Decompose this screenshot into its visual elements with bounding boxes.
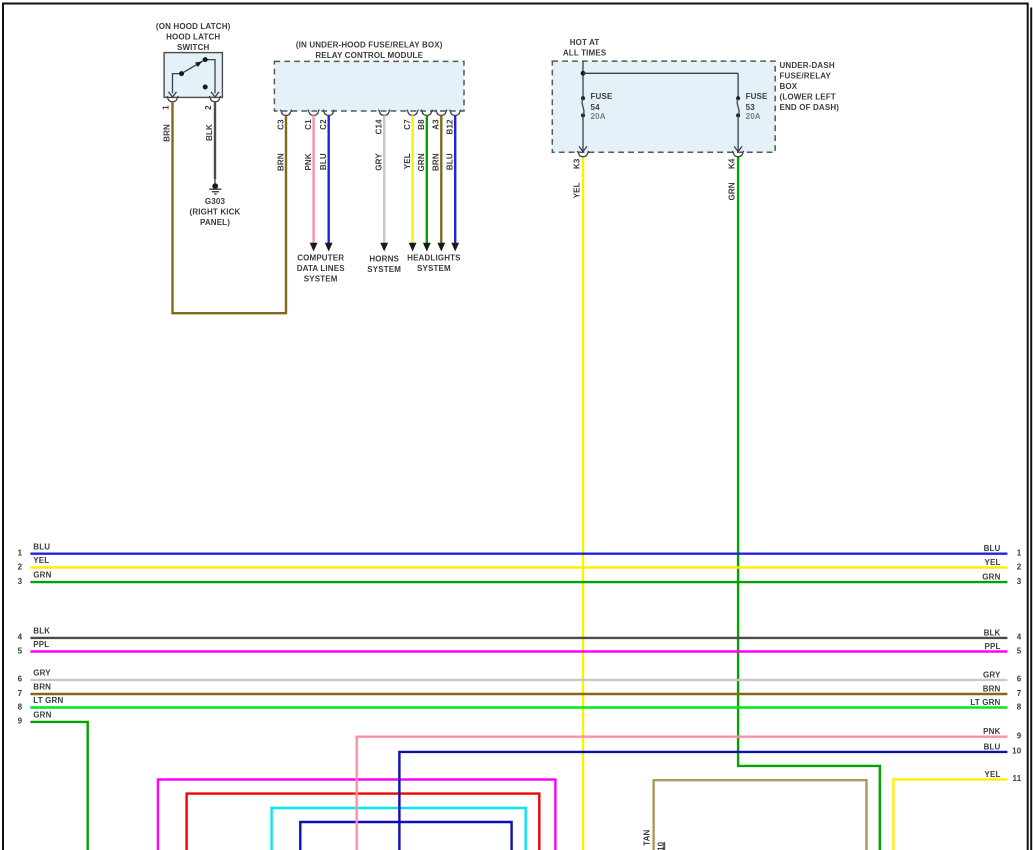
svg-text:BLU: BLU [984,742,1001,751]
svg-text:1: 1 [18,549,23,558]
svg-text:BLK: BLK [984,628,1001,637]
svg-text:YEL: YEL [403,153,412,169]
svg-text:5: 5 [1017,646,1022,655]
svg-text:GRY: GRY [33,669,51,678]
svg-text:YEL: YEL [573,182,582,198]
svg-text:K4: K4 [728,158,737,169]
svg-text:PPL: PPL [33,640,49,649]
svg-text:3: 3 [1017,577,1022,586]
svg-text:1: 1 [161,105,170,110]
svg-text:BOX: BOX [780,82,798,91]
svg-text:BLU: BLU [446,153,455,170]
svg-text:20A: 20A [591,112,606,121]
svg-text:10: 10 [1012,747,1022,756]
svg-text:SYSTEM: SYSTEM [367,265,401,274]
svg-text:SYSTEM: SYSTEM [304,275,338,284]
svg-text:RELAY CONTROL MODULE: RELAY CONTROL MODULE [315,51,423,60]
svg-text:HEADLIGHTS: HEADLIGHTS [407,254,461,263]
svg-text:BLK: BLK [33,627,50,636]
svg-text:BLK: BLK [205,124,214,141]
svg-text:FUSE/RELAY: FUSE/RELAY [780,71,832,80]
svg-text:B8: B8 [417,119,426,130]
svg-text:FUSE: FUSE [746,92,768,101]
svg-text:7: 7 [1017,689,1022,698]
svg-text:6: 6 [18,675,23,684]
svg-text:C7: C7 [403,119,412,130]
svg-text:4: 4 [18,633,23,642]
svg-text:BLU: BLU [984,544,1001,553]
svg-text:BRN: BRN [163,124,172,142]
svg-text:BRN: BRN [432,153,441,171]
svg-text:BRN: BRN [276,153,285,171]
svg-text:PNK: PNK [304,153,313,170]
svg-text:ALL TIMES: ALL TIMES [563,48,607,57]
svg-text:3: 3 [18,577,23,586]
svg-text:C1: C1 [304,119,313,130]
svg-text:YEL: YEL [984,770,1000,779]
svg-text:SWITCH: SWITCH [177,43,210,52]
svg-text:8: 8 [18,702,23,711]
svg-text:BLU: BLU [33,542,50,551]
svg-text:K3: K3 [573,158,582,169]
svg-text:END OF DASH): END OF DASH) [780,103,840,112]
svg-text:SYSTEM: SYSTEM [417,264,451,273]
svg-text:BRN: BRN [33,683,51,692]
svg-text:C14: C14 [375,119,384,135]
svg-text:GRN: GRN [33,571,51,580]
svg-text:(IN UNDER-HOOD FUSE/RELAY BOX): (IN UNDER-HOOD FUSE/RELAY BOX) [296,40,443,49]
svg-text:8: 8 [1017,702,1022,711]
svg-text:YEL: YEL [33,556,49,565]
svg-text:C2: C2 [319,119,328,130]
svg-text:GRN: GRN [417,153,426,171]
svg-text:BLU: BLU [319,153,328,170]
svg-text:FUSE: FUSE [591,92,613,101]
svg-text:A3: A3 [432,119,441,130]
svg-text:HORNS: HORNS [369,254,399,263]
svg-text:2: 2 [1017,562,1022,571]
svg-text:9: 9 [1017,732,1022,741]
svg-text:UNDER-DASH: UNDER-DASH [780,61,835,70]
svg-text:(LOWER LEFT: (LOWER LEFT [780,92,836,101]
svg-text:C3: C3 [276,119,285,130]
svg-text:6: 6 [1017,675,1022,684]
svg-text:9: 9 [18,717,23,726]
svg-text:B12: B12 [446,119,455,135]
svg-text:54: 54 [591,103,601,112]
svg-text:PPL: PPL [984,642,1000,651]
svg-text:2: 2 [18,562,23,571]
svg-text:GRN: GRN [982,573,1000,582]
svg-text:20A: 20A [746,112,761,121]
svg-text:GRN: GRN [728,182,737,200]
svg-text:7: 7 [18,689,23,698]
svg-text:HOT AT: HOT AT [570,38,600,47]
svg-text:11: 11 [1013,774,1022,783]
svg-text:(RIGHT KICK: (RIGHT KICK [190,208,241,217]
svg-text:YEL: YEL [984,558,1000,567]
svg-text:1: 1 [1017,549,1022,558]
svg-text:BRN: BRN [983,684,1001,693]
svg-text:(ON HOOD LATCH): (ON HOOD LATCH) [156,22,231,31]
svg-text:G303: G303 [205,197,226,206]
svg-text:COMPUTER: COMPUTER [297,254,344,263]
svg-text:PANEL): PANEL) [200,218,230,227]
svg-text:PNK: PNK [983,727,1000,736]
svg-text:DATA LINES: DATA LINES [297,264,346,273]
svg-text:4: 4 [1017,633,1022,642]
svg-text:LT GRN: LT GRN [33,696,63,705]
svg-text:TAN: TAN [643,829,652,845]
svg-text:LT GRN: LT GRN [970,698,1000,707]
svg-text:5: 5 [18,646,23,655]
svg-text:GRY: GRY [983,670,1001,679]
svg-text:2: 2 [204,105,213,110]
svg-text:GRY: GRY [375,153,384,171]
svg-text:53: 53 [746,103,756,112]
svg-text:GRN: GRN [33,711,51,720]
svg-text:HOOD LATCH: HOOD LATCH [166,33,220,42]
